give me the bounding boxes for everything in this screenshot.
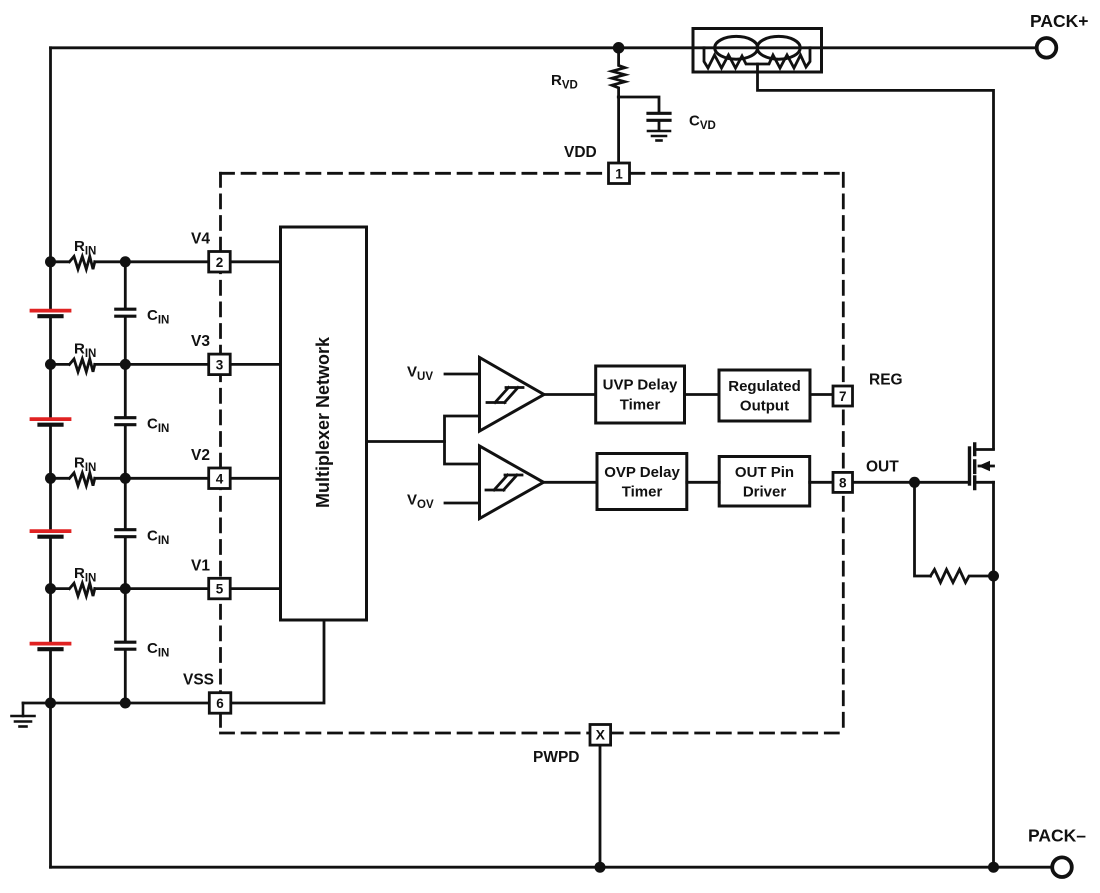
OUT pin driver box [719,457,810,507]
wire UVP to regulated output [685,393,720,396]
wire row VSS [23,702,209,705]
wire bottom rail PACK- [51,866,1054,869]
hysteresis glyph OV [486,475,522,490]
node OUT gate junction [909,477,920,488]
pin 6 box [209,693,231,714]
capacitor CIN 3 [116,478,135,588]
capacitor CVD [648,113,670,120]
terminal PACK- circle [1052,857,1072,877]
regulated output box [719,370,810,421]
svg-text:6: 6 [216,696,224,711]
node bottom source [988,862,999,873]
node left rail V1 [45,583,56,594]
svg-text:Multiplexer Network: Multiplexer Network [313,336,333,508]
svg-text:REG: REG [869,372,903,389]
wire left rail segment 1 [49,48,52,308]
wire CVD to ground [658,122,661,129]
pin 4 box [209,468,231,489]
pin 7 box [833,386,853,406]
node left rail VSS [45,698,56,709]
pin 5 box [209,578,231,599]
pin X box [590,725,611,746]
svg-text:2: 2 [216,255,224,270]
wire left rail segment 2 [49,317,52,416]
node cap rail V3 [120,359,131,370]
svg-text:5: 5 [216,582,224,597]
svg-text:X: X [596,727,606,743]
node left rail V3 [45,359,56,370]
resistor RIN row V4 zigzag [70,256,95,269]
svg-text:Driver: Driver [743,484,787,501]
pin 8 box [833,472,853,492]
fuse element ellipse left [715,36,758,59]
svg-text:PACK+: PACK+ [1030,11,1089,31]
svg-text:V4: V4 [191,231,210,248]
wire comparator UV to UVP timer [544,393,596,396]
wire mux output [367,440,445,443]
ground symbol left [12,703,35,727]
resistor RIN row V2 zigzag [70,473,95,486]
resistor RIN row V3 zigzag [70,359,95,372]
svg-text:OVP Delay: OVP Delay [604,464,680,481]
node bottom pinX [595,862,606,873]
svg-text:V3: V3 [191,333,210,350]
wire row V3 [51,363,281,366]
wire regulated output to pin7 [810,393,833,396]
hysteresis glyph UV [487,388,523,403]
wire row V1 [51,587,281,590]
wire fuse heater tap [758,64,994,448]
resistor pulldown zigzag [931,570,994,583]
node top RVD junction [613,42,625,54]
svg-text:8: 8 [839,475,847,490]
wire RVD to CVD branch [618,97,659,112]
pin 3 box [209,354,231,375]
multiplexer network box [281,227,367,620]
svg-text:V1: V1 [191,557,210,574]
svg-text:1: 1 [615,166,623,181]
svg-text:3: 3 [216,357,224,372]
node cap rail V1 [120,583,131,594]
capacitor CIN 1 [116,262,135,365]
svg-text:V2: V2 [191,447,210,464]
fuse heater zigzag [704,48,810,68]
svg-text:OUT Pin: OUT Pin [735,464,794,481]
op-amp comparator UV [480,358,545,432]
capacitor CIN 2 [116,364,135,478]
battery cell B4 [32,644,70,650]
battery cell B2 [32,419,70,425]
terminal PACK+ circle [1037,38,1057,58]
ground symbol CVD [648,131,670,141]
wire pin8 to gate [853,481,970,484]
wire comparator OV to OVP timer [544,481,597,484]
wire top rail PACK+ [51,46,1047,49]
wire left rail segment 3 [49,426,52,529]
svg-text:PACK–: PACK– [1028,826,1086,846]
battery cell B3 [32,531,70,537]
svg-text:VSS: VSS [183,672,214,689]
wire VOV input [445,502,480,505]
node left rail V4 [45,256,56,267]
svg-text:UVP Delay: UVP Delay [603,377,678,394]
wire OUT pin driver to pin8 [810,481,833,484]
capacitor CIN 4 [116,589,135,703]
svg-text:Timer: Timer [622,484,663,501]
transistor Q1 NMOS [970,444,975,489]
OVP delay timer box [597,454,687,510]
wire FET source down [992,482,995,867]
wire left rail segment 4 [49,538,52,641]
svg-text:VDD: VDD [564,144,597,161]
node left rail V2 [45,473,56,484]
wire OVP to OUT pin driver [687,481,719,484]
pin 1 box [209,163,853,745]
svg-text:4: 4 [216,471,224,486]
node source resistor junction [988,571,999,582]
op-amp comparator OV [480,446,544,519]
node cap rail V2 [120,473,131,484]
wire VSS to mux bottom tap [231,620,324,703]
IC boundary dashed box [221,173,844,733]
wire pinX down [599,744,602,868]
wire OUT pulldown resistor branch [915,482,931,576]
svg-text:7: 7 [839,389,847,404]
svg-text:Timer: Timer [620,397,661,414]
wire left rail segment 5 [49,650,52,867]
resistor RVD vertical [612,48,625,163]
svg-text:PWPD: PWPD [533,749,580,766]
wire row V2 [51,477,281,480]
fuse element ellipse right [757,36,800,59]
wire VUV input [445,373,480,376]
wire row V4 [51,260,281,263]
fuse F1 box [693,29,822,73]
svg-text:Output: Output [740,398,789,415]
node cap rail V4 [120,256,131,267]
resistor RIN row V1 zigzag [70,583,95,596]
wire splitter staple [445,416,480,464]
svg-text:Regulated: Regulated [728,378,801,395]
pin 2 box [209,252,231,273]
svg-text:OUT: OUT [866,459,899,476]
battery cell B1 [32,311,70,317]
UVP delay timer box [596,366,685,423]
node cap rail VSS [120,698,131,709]
